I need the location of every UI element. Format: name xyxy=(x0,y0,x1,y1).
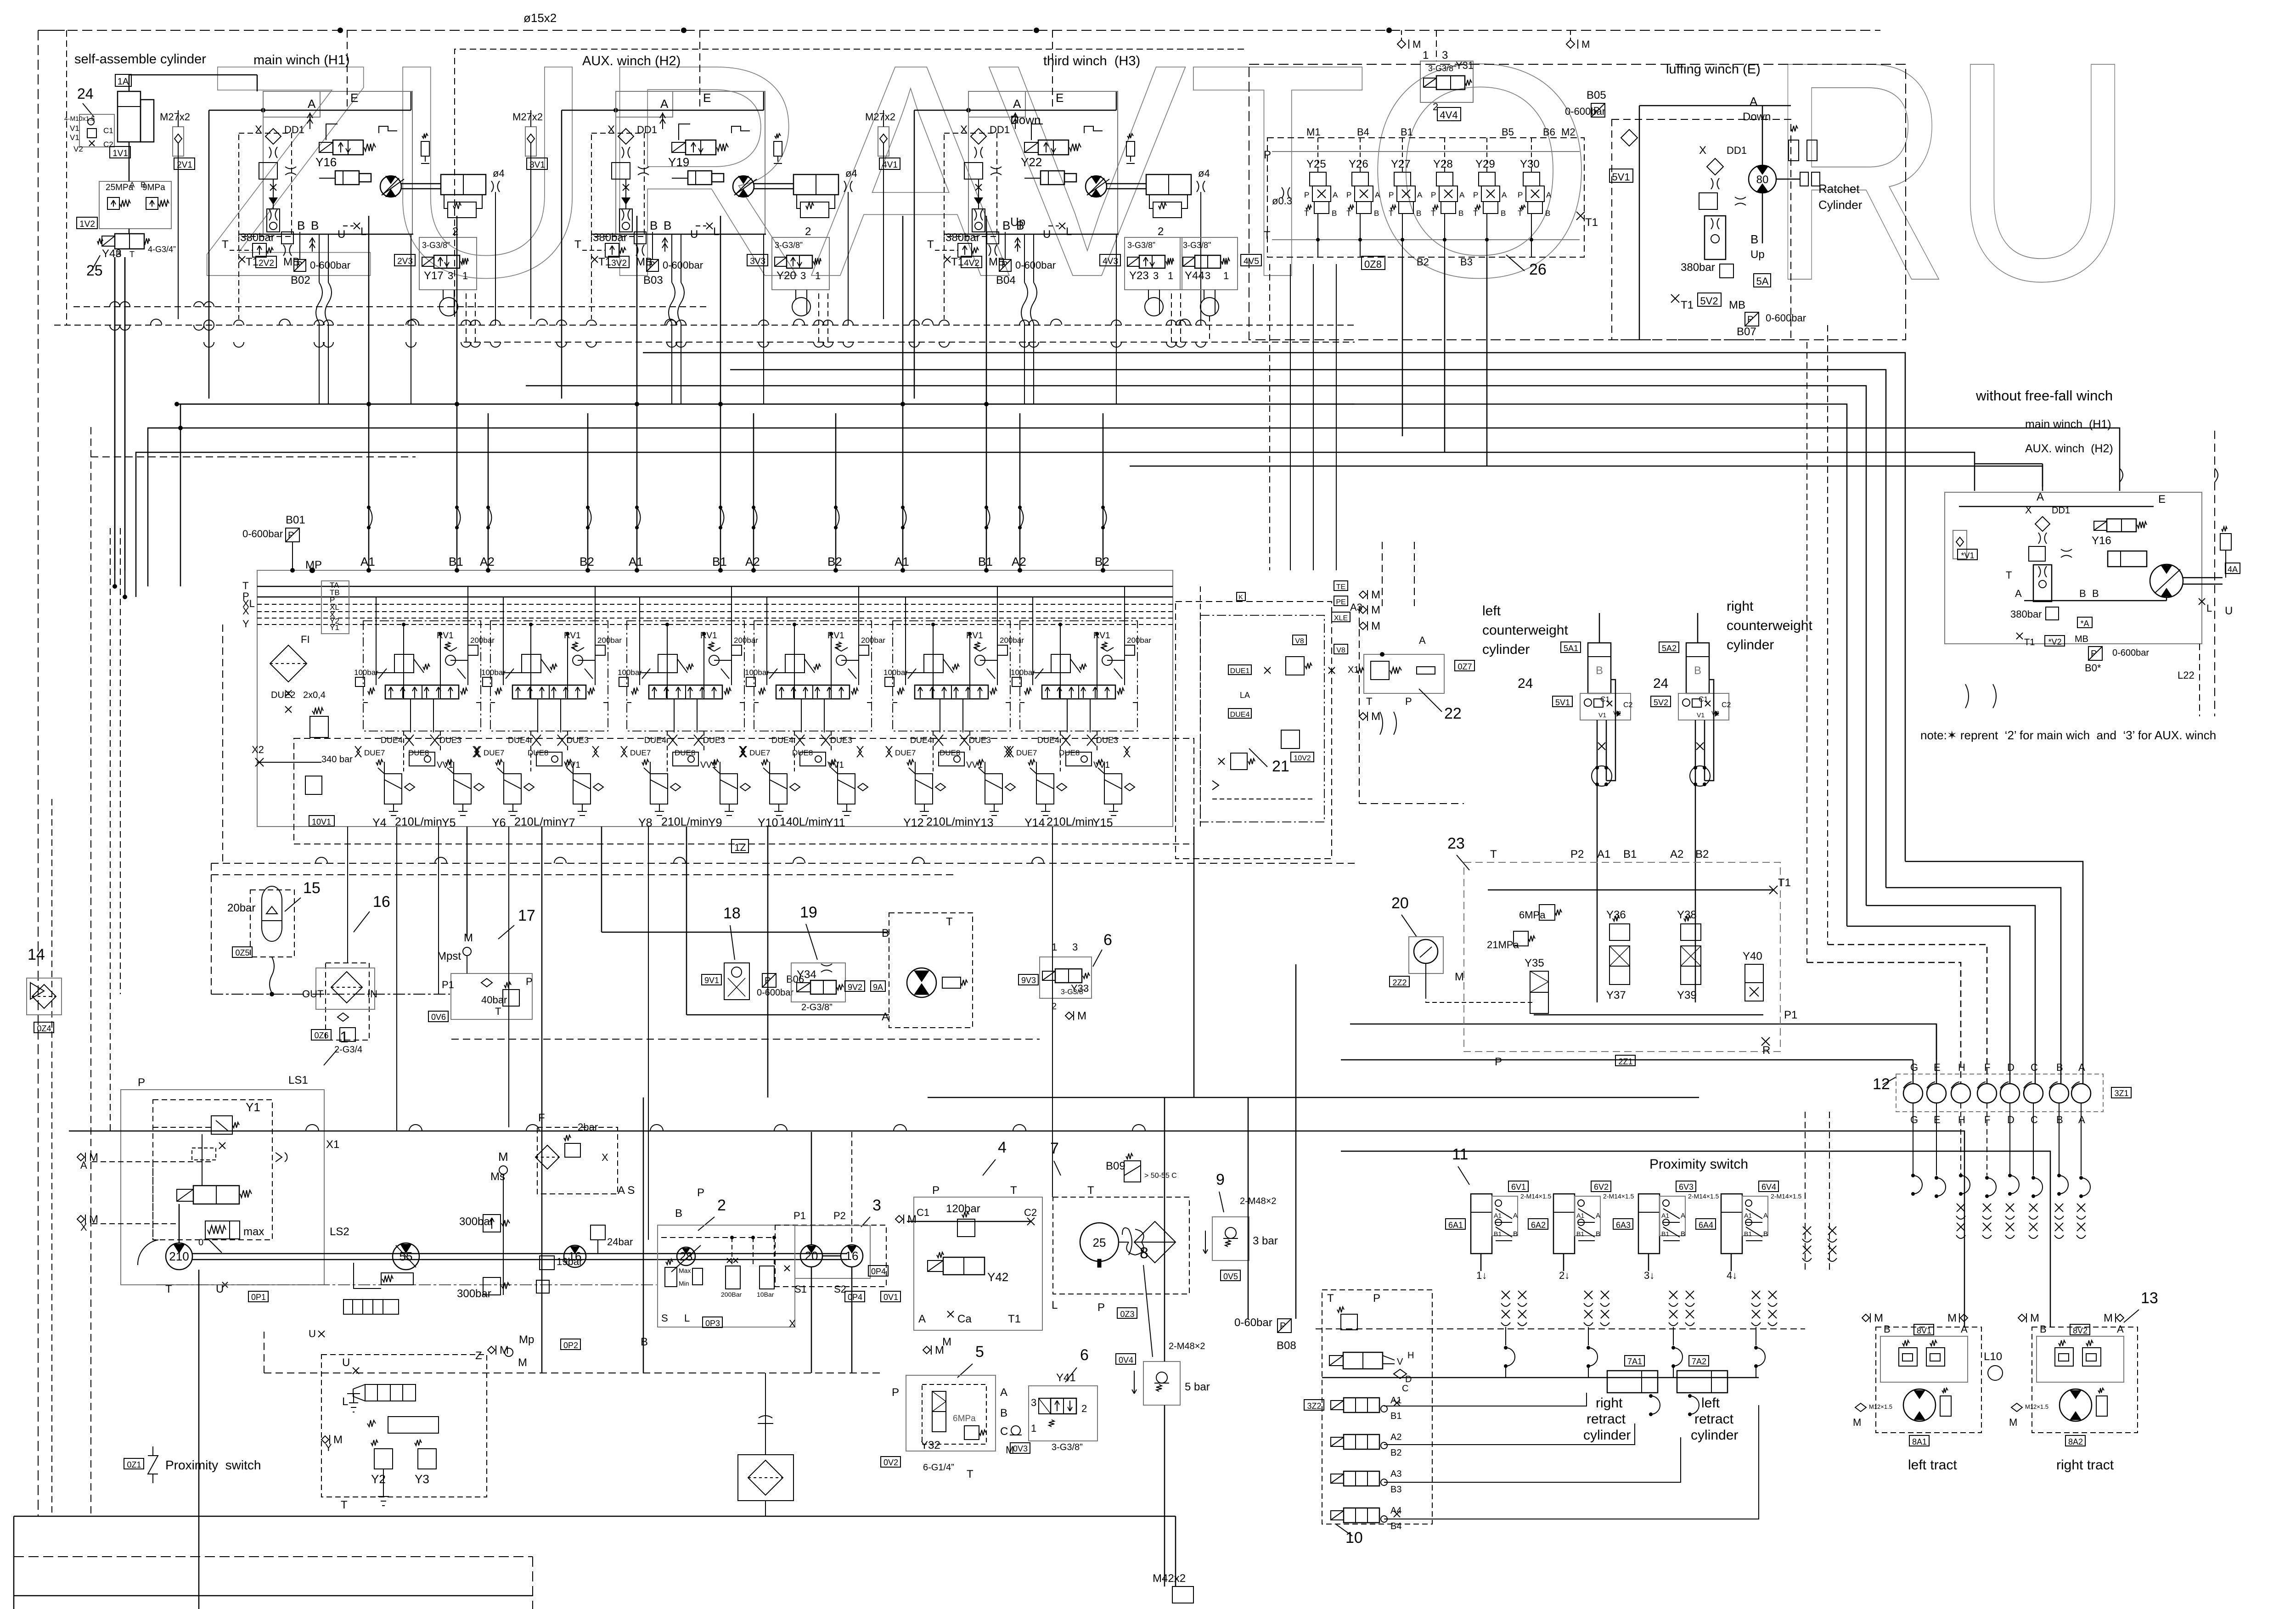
check valves DUE xyxy=(474,746,481,757)
svg-text:A: A xyxy=(1763,1212,1768,1220)
svg-text:L: L xyxy=(342,1395,348,1408)
svg-text:B2: B2 xyxy=(1417,256,1429,268)
svg-text:3: 3 xyxy=(1205,270,1210,281)
tract motor left xyxy=(1903,1389,1936,1421)
svg-text:Y38: Y38 xyxy=(1677,909,1697,921)
svg-text:21: 21 xyxy=(1272,758,1289,775)
svg-text:V1: V1 xyxy=(1697,711,1705,719)
svg-text:Y28: Y28 xyxy=(1433,158,1453,170)
7A1 right retract cylinder xyxy=(1625,1356,1644,1366)
svg-text:A: A xyxy=(1333,191,1338,199)
svg-text:210L/min: 210L/min xyxy=(395,816,442,828)
wire bottom solid xyxy=(14,1516,1176,1517)
section relief RV xyxy=(573,655,583,665)
proportional valve pair xyxy=(365,1384,416,1401)
svg-text:3Z2: 3Z2 xyxy=(1307,1401,1321,1411)
svg-text:X: X xyxy=(242,605,249,617)
svg-text:M: M xyxy=(1371,710,1380,723)
svg-text:0-600bar: 0-600bar xyxy=(757,988,793,998)
module gray enclosure H2 xyxy=(616,91,765,234)
M drain xyxy=(1855,1403,1866,1412)
svg-text:E: E xyxy=(2158,493,2166,506)
svg-text:counterweight: counterweight xyxy=(1482,623,1568,638)
svg-text:C1: C1 xyxy=(917,1207,929,1218)
svg-text:A: A xyxy=(2117,1323,2124,1335)
svg-text:7A1: 7A1 xyxy=(1627,1357,1642,1366)
svg-text:B1: B1 xyxy=(1576,1230,1584,1238)
svg-text:2: 2 xyxy=(1081,1403,1087,1414)
svg-text:Y: Y xyxy=(325,1442,332,1453)
luffing motor 80 xyxy=(1749,165,1776,193)
svg-text:B: B xyxy=(1763,1230,1768,1238)
svg-text:M27x2: M27x2 xyxy=(865,111,895,123)
24bar relief xyxy=(591,1225,605,1240)
winch gearbox H3 xyxy=(1146,174,1191,195)
solenoid Y2 xyxy=(374,1449,393,1469)
ff counterbalance xyxy=(2033,565,2052,602)
manifold solenoid valve row 1 xyxy=(1331,1401,1344,1410)
svg-text:0Z1: 0Z1 xyxy=(127,1460,141,1469)
svg-text:21MPa: 21MPa xyxy=(1487,939,1519,951)
svg-text:0V2: 0V2 xyxy=(884,1458,898,1467)
svg-text:210L/min: 210L/min xyxy=(514,816,562,828)
main spool xyxy=(649,685,722,699)
svg-text:23: 23 xyxy=(1447,835,1465,852)
svg-text:E: E xyxy=(1056,91,1064,105)
svg-text:> 50-55 C: > 50-55 C xyxy=(1144,1172,1177,1180)
right bundle verticals from collectors xyxy=(643,353,1905,861)
svg-text:5V2: 5V2 xyxy=(1700,295,1718,307)
svg-text:DUE7: DUE7 xyxy=(364,748,385,757)
svg-text:H: H xyxy=(1958,1114,1965,1125)
suction bus xyxy=(264,1373,882,1373)
left dashed vertical 198 xyxy=(90,427,91,1516)
svg-text:counterweight: counterweight xyxy=(1727,618,1812,633)
svg-text:ø15x2: ø15x2 xyxy=(523,11,557,25)
svg-text:M: M xyxy=(1412,39,1421,50)
svg-text:P: P xyxy=(138,1076,145,1089)
svg-text:B2: B2 xyxy=(580,555,594,568)
B line xyxy=(643,1097,644,1373)
svg-text:B: B xyxy=(2079,588,2086,599)
svg-text:100bar: 100bar xyxy=(1011,668,1035,677)
svg-text:Y11: Y11 xyxy=(826,816,845,829)
bus gate arcs xyxy=(204,320,214,325)
svg-text:Y4: Y4 xyxy=(372,816,387,829)
svg-text:9: 9 xyxy=(1216,1171,1225,1188)
svg-text:4A: 4A xyxy=(2228,565,2238,574)
port T1 H2 xyxy=(591,256,598,263)
svg-text:B07: B07 xyxy=(1737,326,1756,338)
svg-text:3V1: 3V1 xyxy=(529,160,545,170)
ff Y16 valve xyxy=(2094,521,2107,530)
svg-text:28: 28 xyxy=(680,1249,693,1263)
pilot reducing valve Y5 xyxy=(454,774,471,804)
svg-text:9A: 9A xyxy=(873,983,883,992)
svg-text:B: B xyxy=(2056,1114,2063,1125)
pilot valve Y31 (4V4) xyxy=(1420,61,1473,102)
svg-text:Y34: Y34 xyxy=(797,968,816,981)
self-assemble cylinder 1A xyxy=(115,74,131,86)
wire bottom dashed xyxy=(14,1556,533,1557)
tag 8A2 xyxy=(2065,1435,2085,1446)
M drain xyxy=(2011,1403,2022,1412)
svg-text:LS2: LS2 xyxy=(330,1226,349,1238)
main spool xyxy=(385,685,459,699)
F filter 2bar xyxy=(537,1127,618,1194)
svg-text:2V3: 2V3 xyxy=(397,257,413,266)
svg-text:1: 1 xyxy=(1168,270,1173,281)
svg-text:A1: A1 xyxy=(1494,1212,1502,1219)
svg-text:M12×1.5: M12×1.5 xyxy=(2025,1403,2048,1410)
svg-text:340 bar: 340 bar xyxy=(321,754,353,765)
solenoid valve Y42 xyxy=(928,1260,943,1271)
svg-text:B: B xyxy=(1596,1230,1600,1238)
svg-text:B: B xyxy=(297,219,305,232)
svg-text:T: T xyxy=(1431,209,1435,218)
pilot reducing valve Y4 xyxy=(384,774,402,804)
port L H1 xyxy=(354,223,360,229)
double throttle col left xyxy=(1803,1226,1811,1235)
svg-text:22: 22 xyxy=(1444,705,1462,722)
svg-text:P: P xyxy=(1373,1292,1380,1305)
coupling H xyxy=(1951,1084,1970,1103)
svg-text:Y9: Y9 xyxy=(708,816,722,829)
svg-text:P2: P2 xyxy=(833,1210,846,1221)
holding valve 5V2 xyxy=(1678,693,1729,720)
svg-text:8V2: 8V2 xyxy=(2073,1326,2088,1335)
item1 internal lines xyxy=(152,1162,153,1240)
svg-text:A1: A1 xyxy=(1576,1212,1584,1219)
svg-text:M: M xyxy=(2030,1312,2039,1324)
svg-text:DUE3: DUE3 xyxy=(969,736,991,745)
svg-text:A: A xyxy=(1596,1212,1600,1220)
svg-text:M42x2: M42x2 xyxy=(1153,1572,1186,1585)
main spool xyxy=(1042,685,1115,699)
counterweight cylinder 5A2 xyxy=(1686,643,1709,693)
T feed vertical xyxy=(180,404,181,586)
Max Min piston xyxy=(665,1267,677,1287)
svg-text:B: B xyxy=(1374,209,1379,218)
svg-text:L: L xyxy=(360,225,366,238)
svg-text:B: B xyxy=(141,180,146,189)
svg-text:A: A xyxy=(1459,191,1465,199)
valve section at x=2072 xyxy=(893,621,1010,731)
svg-text:P: P xyxy=(1518,191,1523,199)
pilot reducing valve Y7 xyxy=(573,774,591,804)
svg-text:B05: B05 xyxy=(1587,89,1606,101)
svg-text:200bar: 200bar xyxy=(734,636,758,645)
svg-text:25: 25 xyxy=(1093,1236,1106,1249)
svg-text:B: B xyxy=(311,219,319,232)
port T1 H1 xyxy=(239,256,245,263)
svg-text:Y5: Y5 xyxy=(442,816,456,829)
arc jumps top buses xyxy=(151,319,162,325)
svg-text:DUE8: DUE8 xyxy=(528,748,548,757)
svg-text:A1: A1 xyxy=(1661,1212,1669,1219)
pilot valve 3-G3/8 H3 xyxy=(1125,237,1182,290)
holding valve 5V1 xyxy=(1580,693,1631,720)
svg-text:A3: A3 xyxy=(1390,1469,1401,1479)
pilot reducing valve Y10 xyxy=(770,774,787,804)
svg-text:M1: M1 xyxy=(1306,126,1321,138)
compensator H1 xyxy=(259,163,277,179)
svg-text:26: 26 xyxy=(1529,261,1547,278)
svg-text:3-G3/8”: 3-G3/8” xyxy=(775,241,803,250)
svg-text:1A: 1A xyxy=(118,77,129,87)
svg-text:2-M14×1.5: 2-M14×1.5 xyxy=(1520,1193,1552,1200)
strip drop lines xyxy=(1913,1103,1913,1176)
tag 8A1 xyxy=(1909,1435,1929,1446)
solenoid Y3 xyxy=(418,1449,436,1469)
shuttle check block VV xyxy=(801,699,802,732)
svg-text:ø4: ø4 xyxy=(845,168,857,179)
svg-text:0P3: 0P3 xyxy=(705,1319,720,1328)
fan motor 25 xyxy=(1080,1223,1119,1261)
svg-text:B: B xyxy=(1596,664,1603,677)
svg-text:Y16: Y16 xyxy=(2092,534,2111,547)
wire top dashed bus xyxy=(38,30,1880,31)
check valves DUE xyxy=(886,746,892,757)
svg-text:T: T xyxy=(1473,209,1478,218)
relief small H3 xyxy=(1126,141,1135,156)
svg-text:DUE4: DUE4 xyxy=(508,736,530,745)
shuttle valve DD1 H2 xyxy=(618,129,634,144)
svg-text:B6: B6 xyxy=(1543,126,1555,138)
svg-text:P1: P1 xyxy=(793,1210,806,1221)
wire A H2 xyxy=(562,110,764,111)
pilot relief H1 xyxy=(253,243,266,257)
svg-text:380bar: 380bar xyxy=(945,231,980,244)
svg-text:DUE3: DUE3 xyxy=(830,736,852,745)
svg-text:H: H xyxy=(1407,1350,1414,1361)
svg-text:B04: B04 xyxy=(996,274,1016,287)
dashed bus y=745 xyxy=(464,342,1355,343)
hose bumps H2 xyxy=(669,282,684,323)
svg-text:P: P xyxy=(1264,149,1271,161)
svg-text:S2: S2 xyxy=(834,1283,846,1295)
ff small relief xyxy=(2220,534,2231,550)
svg-text:T: T xyxy=(222,238,229,251)
svg-text:DUE7: DUE7 xyxy=(749,748,770,757)
svg-text:A: A xyxy=(1013,97,1021,111)
svg-text:18: 18 xyxy=(723,905,741,922)
svg-text:9V2: 9V2 xyxy=(848,983,862,992)
lines to manifold xyxy=(1597,720,1598,863)
throttle check pair xyxy=(1669,1291,1677,1299)
section relief RV xyxy=(836,655,846,665)
svg-text:0V5: 0V5 xyxy=(1223,1272,1238,1281)
svg-text:T: T xyxy=(242,580,248,591)
svg-text:T: T xyxy=(1087,1184,1094,1197)
self-assemble drop wires xyxy=(129,75,130,91)
svg-text:0Z6: 0Z6 xyxy=(314,1031,328,1040)
svg-text:T1: T1 xyxy=(1681,299,1694,311)
svg-text:MB: MB xyxy=(2075,634,2088,644)
svg-text:Min: Min xyxy=(679,1280,689,1287)
svg-text:DUE4: DUE4 xyxy=(1037,736,1059,745)
svg-text:2-M14×1.5: 2-M14×1.5 xyxy=(1603,1193,1634,1200)
svg-text:cylinder: cylinder xyxy=(1583,1428,1631,1443)
svg-text:ø4: ø4 xyxy=(1198,168,1210,179)
svg-text:5V1: 5V1 xyxy=(1612,171,1630,183)
svg-text:B01: B01 xyxy=(286,514,305,526)
wire A H1 xyxy=(209,110,411,111)
svg-text:note:✶ reprent ‘2’ for main w: note:✶ reprent ‘2’ for main wich and ‘3’… xyxy=(1920,728,2216,742)
svg-text:210L/min: 210L/min xyxy=(926,816,974,828)
wire bottom solid 2 xyxy=(14,1595,533,1597)
svg-text:6A4: 6A4 xyxy=(1699,1221,1713,1230)
svg-text:M: M xyxy=(1874,1312,1883,1324)
svg-text:X1: X1 xyxy=(326,1138,339,1151)
svg-text:B: B xyxy=(1501,209,1506,218)
gearbox valve H2 xyxy=(800,202,829,218)
svg-text:1V1: 1V1 xyxy=(113,149,128,158)
svg-text:0: 0 xyxy=(198,1238,203,1248)
svg-text:24: 24 xyxy=(77,85,94,102)
wire E drop H2 xyxy=(699,30,700,110)
svg-text:5 bar: 5 bar xyxy=(1185,1381,1210,1393)
drive shaft xyxy=(192,1253,847,1255)
svg-text:380bar: 380bar xyxy=(1681,261,1715,274)
pump 16a xyxy=(564,1245,586,1267)
svg-text:5A2: 5A2 xyxy=(1662,644,1677,653)
svg-text:8A1: 8A1 xyxy=(1912,1437,1927,1446)
svg-text:3: 3 xyxy=(1031,1397,1036,1408)
svg-text:6V3: 6V3 xyxy=(1679,1182,1694,1192)
svg-text:T1: T1 xyxy=(2024,637,2035,647)
svg-text:V8: V8 xyxy=(1336,647,1345,654)
relief 2 xyxy=(1281,730,1300,748)
svg-text:200Bar: 200Bar xyxy=(721,1291,742,1298)
svg-text:Y17: Y17 xyxy=(424,270,444,282)
svg-text:P: P xyxy=(116,250,121,259)
200Bar/10Bar pilot valves xyxy=(726,1266,740,1289)
svg-text:V: V xyxy=(1397,1357,1403,1367)
svg-text:B08: B08 xyxy=(1277,1339,1296,1352)
tag 1V2 xyxy=(77,217,97,229)
svg-text:0Z4: 0Z4 xyxy=(37,1024,51,1033)
svg-text:M: M xyxy=(498,1150,508,1164)
svg-text:3-G3/8”: 3-G3/8” xyxy=(1428,64,1456,73)
check LA xyxy=(1228,709,1251,718)
svg-text:B1: B1 xyxy=(1744,1230,1752,1238)
svg-text:3 bar: 3 bar xyxy=(1253,1235,1278,1247)
svg-text:5A1: 5A1 xyxy=(1564,644,1578,653)
svg-text:140L/min: 140L/min xyxy=(780,816,827,828)
svg-text:Cylinder: Cylinder xyxy=(1818,198,1863,212)
svg-text:B: B xyxy=(1416,209,1421,218)
svg-text:DUE3: DUE3 xyxy=(1096,736,1118,745)
counterbalance dashed box H2 xyxy=(591,133,644,236)
luffing drops to bank area xyxy=(1269,264,1270,570)
check valves DUE xyxy=(621,746,627,757)
svg-text:Y31: Y31 xyxy=(1456,60,1474,71)
svg-text:retract: retract xyxy=(1587,1412,1626,1427)
prox valve 6V1 xyxy=(1492,1196,1518,1236)
top band vertical solid pairs xyxy=(368,216,370,413)
svg-text:3V2: 3V2 xyxy=(611,259,627,268)
valve bank rails XL X Y2 Y1 xyxy=(257,604,1173,605)
pilot reducing valve Y11 xyxy=(838,774,855,804)
swing brake xyxy=(942,977,961,988)
svg-text:T: T xyxy=(1366,696,1372,707)
svg-text:C: C xyxy=(2031,1114,2038,1125)
svg-text:Max: Max xyxy=(679,1267,691,1274)
svg-text:2-M48×2: 2-M48×2 xyxy=(1240,1196,1277,1206)
swing motor xyxy=(907,968,936,997)
relief 30bar block xyxy=(1286,657,1304,675)
svg-text:15: 15 xyxy=(303,879,321,897)
svg-text:DUE3: DUE3 xyxy=(703,736,725,745)
svg-text:Y14: Y14 xyxy=(1024,816,1045,829)
svg-text:Y20: Y20 xyxy=(777,270,796,282)
svg-text:0P4: 0P4 xyxy=(848,1293,862,1302)
svg-text:C2: C2 xyxy=(1722,701,1731,709)
proximity switch symbol 0Z1 xyxy=(124,1458,144,1469)
svg-text:200bar: 200bar xyxy=(470,636,495,645)
svg-text:U: U xyxy=(690,228,698,241)
shuttle valve DD1 H1 xyxy=(265,129,281,144)
svg-text:5V1: 5V1 xyxy=(1555,698,1570,707)
svg-text:E: E xyxy=(1934,1114,1941,1125)
svg-text:D: D xyxy=(1405,1374,1412,1384)
svg-text:A: A xyxy=(1000,1386,1007,1399)
svg-text:B2: B2 xyxy=(827,555,842,568)
P1 port xyxy=(1534,1014,1763,1016)
svg-text:A: A xyxy=(2037,491,2044,503)
dashed enclosure main winches xyxy=(66,30,67,325)
svg-text:M: M xyxy=(333,1434,343,1446)
svg-text:T: T xyxy=(1327,1292,1334,1305)
svg-text:X1: X1 xyxy=(1348,665,1359,675)
svg-text:3-G3/8”: 3-G3/8” xyxy=(1061,988,1086,996)
svg-text:*V1: *V1 xyxy=(1961,551,1974,560)
svg-text:P: P xyxy=(649,260,655,270)
svg-text:4: 4 xyxy=(998,1139,1007,1156)
svg-text:A: A xyxy=(2078,1114,2085,1125)
svg-text:D: D xyxy=(2007,1114,2015,1125)
svg-text:third winch (H3): third winch (H3) xyxy=(1043,54,1140,68)
accumulator drain hose xyxy=(270,957,274,993)
item 10 solenoid manifold 3Z2 xyxy=(1322,1290,1432,1524)
svg-text:3: 3 xyxy=(1153,270,1159,281)
shuttle check block VV xyxy=(537,699,538,732)
wire A H3 xyxy=(914,110,1116,111)
svg-text:100bar: 100bar xyxy=(354,668,378,677)
ff hose arcs xyxy=(1965,684,1996,708)
pressure sensor B02 xyxy=(294,259,306,271)
svg-text:G: G xyxy=(1910,1114,1918,1125)
svg-text:V8: V8 xyxy=(1295,637,1304,645)
tag 5A xyxy=(1754,274,1771,287)
drive shaft H1 xyxy=(401,183,441,185)
svg-text:B1: B1 xyxy=(1623,848,1637,861)
manifold 10 row extension wires xyxy=(1384,1393,1587,1406)
shuttle check block VV xyxy=(410,699,411,732)
svg-text:B2: B2 xyxy=(1095,555,1109,568)
shaft drain xyxy=(198,1270,200,1332)
prox valve 6V2 xyxy=(1575,1196,1600,1236)
wire E drop H1 xyxy=(347,30,348,110)
svg-text:6A2: 6A2 xyxy=(1531,1221,1546,1230)
svg-text:B4: B4 xyxy=(1357,126,1369,138)
pilot reducing valve Y9 xyxy=(720,774,737,804)
gearbox valve H1 xyxy=(448,202,476,218)
svg-text:3-G3/8": 3-G3/8" xyxy=(1183,241,1211,250)
svg-text:U: U xyxy=(309,1328,316,1339)
svg-text:B5: B5 xyxy=(1502,126,1514,138)
